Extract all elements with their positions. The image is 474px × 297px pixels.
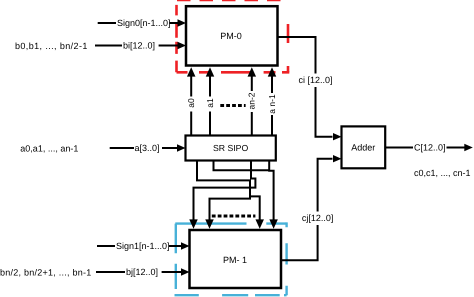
- label an-2: [247, 91, 257, 112]
- svg-text:ci [12..0]: ci [12..0]: [298, 75, 332, 85]
- svg-text:b0,b1, ..., bn/2-1: b0,b1, ..., bn/2-1: [15, 41, 88, 51]
- svg-text:SR SIPO: SR SIPO: [213, 143, 248, 153]
- svg-text:a0: a0: [186, 98, 196, 108]
- wire a1 riser: [206, 67, 215, 135]
- label a0: [186, 97, 196, 112]
- svg-text:a n-1: a n-1: [267, 94, 277, 114]
- wire bj input: [96, 268, 190, 275]
- wire an-2 riser: [248, 67, 256, 135]
- svg-text:PM- 1: PM- 1: [223, 255, 247, 265]
- svg-text:C[12..0]: C[12..0]: [414, 143, 446, 153]
- block SR SIPO: [186, 136, 276, 161]
- svg-text:bn/2, bn/2+1, ..., bn-1: bn/2, bn/2+1, ..., bn-1: [0, 268, 92, 278]
- label cj[12..0]: [302, 212, 334, 226]
- dotted ellipsis between a1 and an-2: [220, 104, 245, 107]
- wire a input: [110, 144, 186, 151]
- block PM-0: [186, 6, 278, 65]
- svg-text:Adder: Adder: [351, 143, 375, 153]
- label a1: [205, 97, 215, 112]
- wire Sign1 input: [97, 242, 190, 249]
- block Adder: [342, 126, 386, 168]
- svg-text:Sign1[n-1...0]: Sign1[n-1...0]: [116, 241, 170, 251]
- svg-text:bj[12..0]: bj[12..0]: [126, 267, 158, 277]
- wire sipo out 4 (jog to PM-1 arrow 4): [269, 161, 273, 221]
- label a n-1: [267, 93, 277, 115]
- svg-text:a0,a1, ..., an-1: a0,a1, ..., an-1: [20, 144, 78, 154]
- wire Sign0 input: [98, 19, 186, 26]
- wire sipo out 1 (staircase to PM-1 arrow 2 col): [197, 161, 250, 221]
- cyan dashed region around PM-1: [175, 222, 287, 295]
- label ci [12..0]: [298, 74, 332, 88]
- arrowhead into PM-1 top 4: [269, 219, 278, 228]
- wire C output: [385, 144, 473, 152]
- arrowhead into PM-1 top 1: [189, 219, 198, 228]
- svg-text:cj[12..0]: cj[12..0]: [302, 213, 334, 223]
- wire branch to PM-1 arrow 3: [250, 196, 260, 220]
- wire bi input: [95, 42, 186, 49]
- wire sipo out 3 (crossover to PM-1 arrow 1): [194, 161, 256, 221]
- arrowhead into PM-1 top 3: [255, 219, 264, 228]
- arrowhead into PM-1 top 2: [205, 219, 214, 228]
- dotted ellipsis between PM-1 arrows: [212, 215, 256, 218]
- wire ci from PM-0 to Adder: [278, 37, 333, 137]
- svg-text:c0,c1, ..., cn-1: c0,c1, ..., cn-1: [414, 168, 471, 178]
- wire an-1 riser: [268, 67, 277, 135]
- svg-text:Sign0[n-1...0]: Sign0[n-1...0]: [117, 18, 171, 28]
- block PM-1: [190, 230, 282, 288]
- wire sipo out 2 (short drop joining): [214, 161, 270, 171]
- wire cj from PM-1 to Adder: [281, 159, 333, 261]
- svg-text:bi[12..0]: bi[12..0]: [123, 41, 155, 51]
- red dashed region around PM-0: [177, 0, 290, 72]
- svg-text:a[3..0]: a[3..0]: [135, 143, 160, 153]
- wire a0 riser: [187, 67, 196, 135]
- svg-text:a1: a1: [205, 98, 215, 108]
- svg-text:PM-0: PM-0: [220, 31, 242, 41]
- svg-text:an-2: an-2: [247, 92, 257, 109]
